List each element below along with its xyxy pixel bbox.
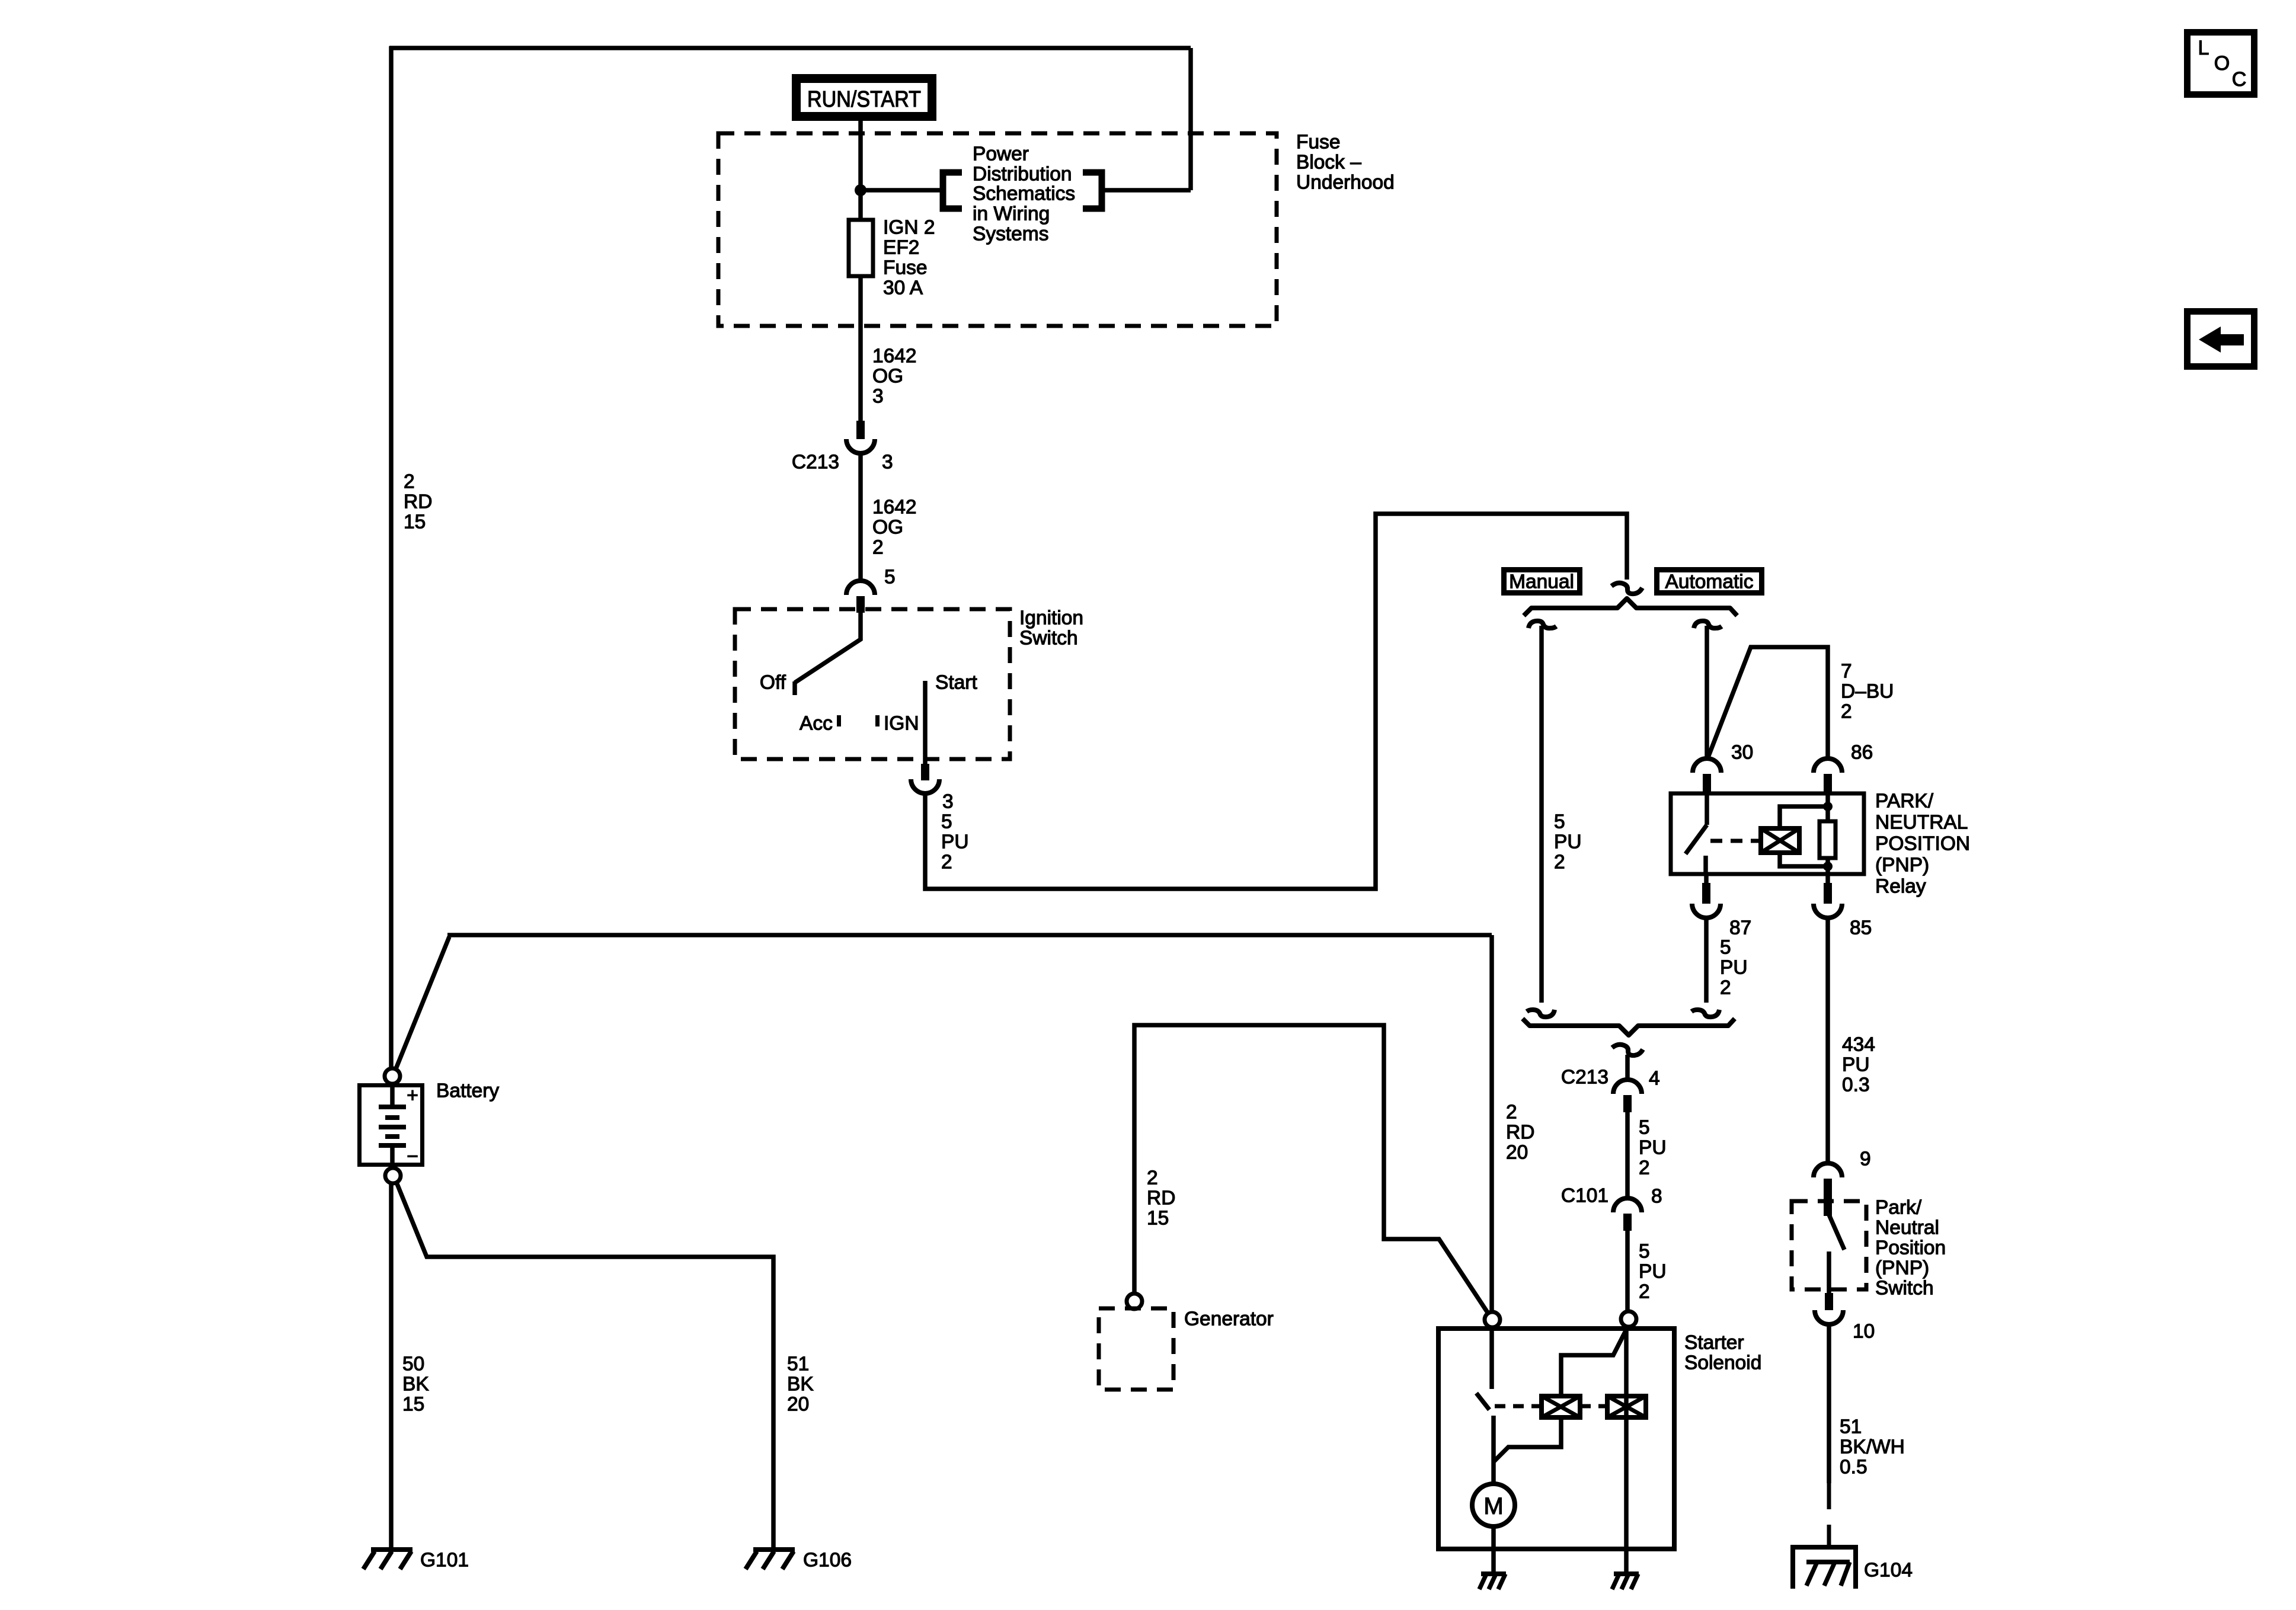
LOC reference box: [2188, 33, 2255, 95]
generator circle terminal: [1127, 1294, 1142, 1309]
svg-text:Park/: Park/: [1875, 1197, 1922, 1219]
svg-text:PU: PU: [1639, 1137, 1667, 1159]
hold-in winding (crossed box): [1607, 1396, 1646, 1417]
svg-text:85: 85: [1850, 917, 1872, 939]
wire 5 PU 2: C213 to C101: [1625, 1112, 1630, 1199]
PNP switch lower contact: [1827, 1251, 1831, 1294]
relay pin 30 cup: [1693, 758, 1721, 773]
pull-in winding (crossed box): [1542, 1396, 1580, 1417]
ground G104 rake bar: [1806, 1560, 1850, 1564]
solenoid lower contact: [1491, 1416, 1496, 1484]
wire 51 BK/WH 0.5: [1827, 1324, 1831, 1483]
svg-text:Distribution: Distribution: [973, 164, 1072, 185]
svg-text:BK/WH: BK/WH: [1840, 1436, 1905, 1458]
svg-text:5: 5: [1639, 1241, 1650, 1263]
svg-text:Switch: Switch: [1875, 1278, 1934, 1299]
svg-text:20: 20: [1506, 1142, 1528, 1164]
svg-text:(PNP): (PNP): [1875, 1257, 1929, 1279]
svg-text:7: 7: [1841, 661, 1852, 683]
connector C213 pin 3: male pin: [856, 421, 865, 439]
solenoid contact feed wire: [1489, 1327, 1494, 1389]
svg-text:Fuse: Fuse: [1296, 132, 1340, 153]
wire 2 RD 15: generator to starter solenoid: [1134, 1025, 1489, 1314]
svg-text:(PNP): (PNP): [1875, 854, 1929, 876]
battery negative circle terminal: [385, 1168, 401, 1183]
svg-text:PU: PU: [1554, 831, 1582, 853]
wire 51 BK 20: battery negative to G106: [396, 1181, 773, 1548]
svg-text:C213: C213: [1561, 1067, 1609, 1089]
svg-text:2: 2: [1554, 852, 1565, 873]
PNP switch pin 10: male pin: [1825, 1293, 1833, 1310]
svg-text:1642: 1642: [872, 345, 917, 367]
svg-text:EF2: EF2: [883, 237, 919, 259]
wire: bracket to fuse block right drop: [1101, 188, 1191, 193]
svg-text:2: 2: [1841, 701, 1852, 723]
wire 434 PU 0.3: relay 85 to PNP switch: [1825, 918, 1830, 1164]
node: junction dot coil/resistor bottom: [1823, 862, 1833, 871]
ignition Acc contact tick: [837, 715, 841, 726]
wire: RUN/START to fuse and down to C213: [858, 121, 863, 422]
node: junction dot at fuse feed: [855, 184, 866, 196]
svg-text:PU: PU: [941, 831, 969, 853]
PNP relay box: [1671, 793, 1864, 874]
svg-text:8: 8: [1651, 1186, 1662, 1208]
connector at ignition switch: male pin: [856, 596, 865, 613]
svg-text:15: 15: [404, 511, 426, 533]
ignition Off contact tick: [792, 681, 797, 695]
svg-text:IGN 2: IGN 2: [883, 217, 935, 239]
svg-text:Battery: Battery: [436, 1080, 499, 1102]
ground (hold-in winding): [1614, 1571, 1639, 1576]
svg-text:5: 5: [884, 566, 896, 588]
svg-text:−: −: [407, 1146, 418, 1168]
svg-text:Acc: Acc: [800, 713, 833, 735]
svg-text:Manual: Manual: [1509, 571, 1574, 593]
svg-text:RUN/START: RUN/START: [807, 87, 921, 112]
svg-text:RD: RD: [1506, 1122, 1534, 1144]
svg-text:in Wiring: in Wiring: [973, 203, 1050, 225]
bracket [ left of Power Distribution note: [943, 172, 962, 209]
relay coil (crossed box): [1761, 828, 1799, 853]
svg-text:PARK/: PARK/: [1875, 790, 1934, 812]
wire 2 RD 15: left main vertical (battery feed): [389, 46, 394, 1068]
ground G104 rake teeth: [1806, 1562, 1850, 1586]
connector C101 pin 8: female cup: [1613, 1198, 1642, 1212]
svg-text:2: 2: [1720, 977, 1731, 999]
connector C213 pin 3: female cup: [846, 439, 875, 453]
starter motor M: [1472, 1484, 1515, 1526]
wire: motor to ground: [1491, 1526, 1496, 1574]
navigation arrow box: [2188, 312, 2255, 367]
svg-text:Switch: Switch: [1019, 628, 1078, 649]
relay pin 87 cup: [1692, 904, 1721, 918]
svg-text:5: 5: [1554, 811, 1565, 833]
svg-text:C101: C101: [1561, 1185, 1609, 1207]
svg-text:5: 5: [941, 811, 952, 833]
break squiggle below merge brace: [1612, 1045, 1643, 1055]
svg-text:0.3: 0.3: [1842, 1074, 1870, 1096]
svg-text:M: M: [1483, 1493, 1503, 1519]
automatic branch wire: [1705, 626, 1709, 758]
svg-text:0.5: 0.5: [1840, 1457, 1868, 1478]
svg-text:PU: PU: [1720, 957, 1748, 979]
wire: battery positive to main horizontal: [395, 937, 449, 1070]
svg-text:4: 4: [1649, 1068, 1660, 1090]
Automatic option box: [1657, 570, 1762, 593]
svg-text:G106: G106: [803, 1550, 852, 1571]
svg-text:G101: G101: [420, 1550, 469, 1571]
svg-text:Schematics: Schematics: [973, 183, 1075, 205]
ignition Start contact wire: [923, 681, 928, 765]
node: junction dot pin86/coil: [1823, 802, 1833, 811]
svg-text:10: 10: [1853, 1321, 1875, 1343]
ground G101: [371, 1547, 412, 1552]
split brace (over Manual / Automatic): [1524, 598, 1737, 616]
svg-text:C213: C213: [792, 452, 839, 473]
wire: drop from top horizontal into fuse block: [1188, 48, 1193, 190]
PNP switch pin 9: female cup: [1814, 1163, 1842, 1177]
wire: S terminal through hold-in winding to ground: [1624, 1327, 1629, 1574]
break squiggle above split brace: [1611, 583, 1642, 594]
main horizontal wire (battery bus): [447, 933, 1492, 937]
solenoid tap to pull-in coil: [1494, 1417, 1561, 1461]
relay pin 86 male pin: [1824, 774, 1832, 793]
svg-text:15: 15: [402, 1394, 424, 1416]
wire 1642 OG 2: C213 to ignition switch: [858, 453, 863, 582]
manual branch wire 5 PU 2: [1539, 626, 1544, 1003]
svg-text:Neutral: Neutral: [1875, 1217, 1939, 1239]
starter solenoid battery terminal circle: [1485, 1312, 1500, 1327]
svg-text:15: 15: [1147, 1208, 1169, 1230]
wire 2 RD 15: top horizontal feed: [389, 46, 1191, 50]
svg-text:3: 3: [872, 386, 884, 408]
svg-text:3: 3: [882, 452, 893, 473]
manual branch top curl: [1528, 621, 1556, 628]
relay pin 30 male pin: [1703, 774, 1711, 793]
svg-text:Generator: Generator: [1184, 1308, 1274, 1330]
ignition IGN contact tick: [875, 715, 880, 726]
svg-text:Power: Power: [973, 143, 1029, 165]
relay internal wire: junction to coil top: [1780, 806, 1828, 828]
ignition switch rotor wire: [795, 613, 861, 683]
starter solenoid box: [1438, 1329, 1674, 1549]
svg-text:C: C: [2232, 68, 2247, 91]
pin87 branch bottom curl: [1691, 1010, 1719, 1017]
svg-text:Off: Off: [760, 672, 786, 694]
relay pin 86 cup: [1814, 758, 1842, 773]
PNP switch pin 10: female cup: [1815, 1310, 1843, 1324]
PNP switch pin 9: male pin: [1824, 1179, 1832, 1216]
svg-text:51: 51: [1840, 1416, 1862, 1438]
relay resistor: [1819, 821, 1835, 858]
svg-text:Position: Position: [1875, 1237, 1946, 1259]
svg-text:PU: PU: [1842, 1054, 1870, 1076]
battery positive circle terminal: [385, 1068, 400, 1084]
svg-text:D–BU: D–BU: [1841, 681, 1894, 703]
svg-text:Block –: Block –: [1296, 152, 1361, 174]
fuse IGN 2 EF2 30 A: [849, 220, 873, 276]
battery internal plates: [390, 1083, 395, 1107]
svg-text:RD: RD: [1147, 1188, 1175, 1209]
wire 5 PU 2: ignition to manual/automatic split: [925, 514, 1627, 889]
bracket ] right of Power Distribution note: [1083, 172, 1102, 209]
svg-text:Relay: Relay: [1875, 876, 1926, 898]
svg-text:Fuse: Fuse: [883, 257, 927, 279]
battery box: [360, 1086, 423, 1165]
connector at ignition switch: female cup: [846, 581, 875, 595]
ignition switch dashed box: [735, 609, 1010, 759]
RUN/START box: [792, 74, 936, 121]
svg-text:G104: G104: [1864, 1560, 1913, 1582]
svg-text:Systems: Systems: [973, 223, 1048, 245]
svg-text:2: 2: [872, 537, 884, 559]
merge brace (under Manual / Automatic branches): [1523, 1019, 1735, 1035]
svg-text:Starter: Starter: [1684, 1332, 1744, 1354]
svg-text:5: 5: [1639, 1117, 1650, 1139]
svg-text:OG: OG: [872, 517, 903, 539]
starter solenoid S terminal circle: [1621, 1311, 1636, 1327]
relay pin 87 male pin: [1704, 874, 1709, 884]
fuse block dashed box: Fuse Block - Underhood: [718, 133, 1277, 326]
svg-text:BK: BK: [402, 1374, 429, 1395]
svg-text:9: 9: [1860, 1148, 1871, 1170]
manual branch bottom curl: [1527, 1010, 1555, 1017]
svg-text:2: 2: [1639, 1157, 1650, 1179]
svg-text:NEUTRAL: NEUTRAL: [1875, 812, 1968, 834]
svg-text:30: 30: [1731, 742, 1753, 764]
relay switch lower contact stub: [1703, 856, 1708, 874]
svg-text:30 A: 30 A: [883, 277, 923, 299]
wire 2 RD 20: bus down to starter solenoid: [1489, 935, 1494, 1313]
svg-text:86: 86: [1851, 742, 1873, 764]
relay switch blade (open): [1686, 825, 1707, 854]
svg-text:2: 2: [1147, 1167, 1158, 1189]
wire: brace to C213 pin 4: [1625, 1055, 1630, 1081]
wire: pull-in winding to S terminal: [1561, 1327, 1627, 1396]
PNP switch dashed box: [1792, 1201, 1866, 1289]
svg-text:IGN: IGN: [884, 713, 919, 735]
svg-text:L: L: [2198, 37, 2209, 59]
ground G106: [753, 1547, 795, 1552]
svg-text:3: 3: [942, 791, 954, 813]
svg-text:Automatic: Automatic: [1665, 571, 1754, 593]
svg-text:RD: RD: [404, 491, 432, 513]
svg-text:87: 87: [1729, 917, 1751, 939]
solenoid switch blade (open): [1476, 1393, 1489, 1410]
svg-text:Start: Start: [935, 672, 977, 694]
connector C101 pin 8: male pin: [1623, 1214, 1632, 1231]
relay pin 85 cup: [1814, 904, 1842, 918]
svg-text:Underhood: Underhood: [1296, 172, 1395, 194]
relay internal wire: resistor bottom to box bottom: [1825, 858, 1830, 874]
svg-text:Solenoid: Solenoid: [1684, 1352, 1761, 1374]
relay actuating dashed link: [1710, 839, 1758, 843]
svg-text:50: 50: [402, 1353, 424, 1375]
svg-text:PU: PU: [1639, 1261, 1667, 1283]
svg-text:5: 5: [1720, 937, 1731, 959]
svg-text:OG: OG: [872, 366, 903, 388]
svg-text:O: O: [2214, 52, 2230, 75]
connector at ignition output: male pin: [921, 764, 929, 780]
generator dashed box: [1099, 1308, 1173, 1390]
ground G104 frame: [1793, 1547, 1856, 1589]
relay internal wire: coil bottom to resistor bottom: [1780, 853, 1828, 866]
svg-text:2: 2: [1506, 1102, 1517, 1124]
Manual option box: [1504, 570, 1580, 593]
svg-text:+: +: [407, 1085, 418, 1107]
automatic branch top curl: [1694, 621, 1722, 628]
svg-text:20: 20: [787, 1394, 809, 1416]
solenoid actuating dashed link: [1495, 1404, 1607, 1409]
svg-text:51: 51: [787, 1353, 809, 1375]
arrow (left): [2199, 327, 2221, 353]
svg-text:1642: 1642: [872, 497, 917, 518]
svg-text:2: 2: [1639, 1281, 1650, 1303]
connector C213 pin 4: male pin: [1623, 1095, 1632, 1112]
relay pin 85 male pin: [1825, 874, 1830, 884]
dashed wire continuation to G104: [1827, 1483, 1831, 1547]
svg-text:POSITION: POSITION: [1875, 833, 1970, 855]
svg-text:2: 2: [941, 852, 952, 873]
relay internal wire: pin 86 down to resistor top: [1825, 793, 1830, 821]
PNP switch blade: [1829, 1215, 1844, 1250]
wire 5 PU 2: C101 to starter solenoid: [1625, 1231, 1630, 1312]
wire: junction to power-distribution bracket: [861, 188, 942, 193]
svg-text:2: 2: [404, 471, 415, 493]
svg-text:BK: BK: [787, 1374, 814, 1395]
wire 7 D-BU 2: branch to relay coil pin 86: [1708, 647, 1828, 758]
wire 50 BK 15: battery negative to G101: [389, 1183, 394, 1548]
relay switch: fixed feed from pin 30: [1705, 793, 1709, 825]
connector at ignition output: female cup: [911, 779, 939, 793]
svg-text:434: 434: [1842, 1034, 1875, 1056]
ground (starter motor): [1481, 1571, 1506, 1576]
connector C213 pin 4: female cup: [1613, 1080, 1642, 1094]
wire 5 PU 2 from pin 87: [1704, 918, 1709, 1003]
svg-text:Ignition: Ignition: [1019, 607, 1083, 629]
